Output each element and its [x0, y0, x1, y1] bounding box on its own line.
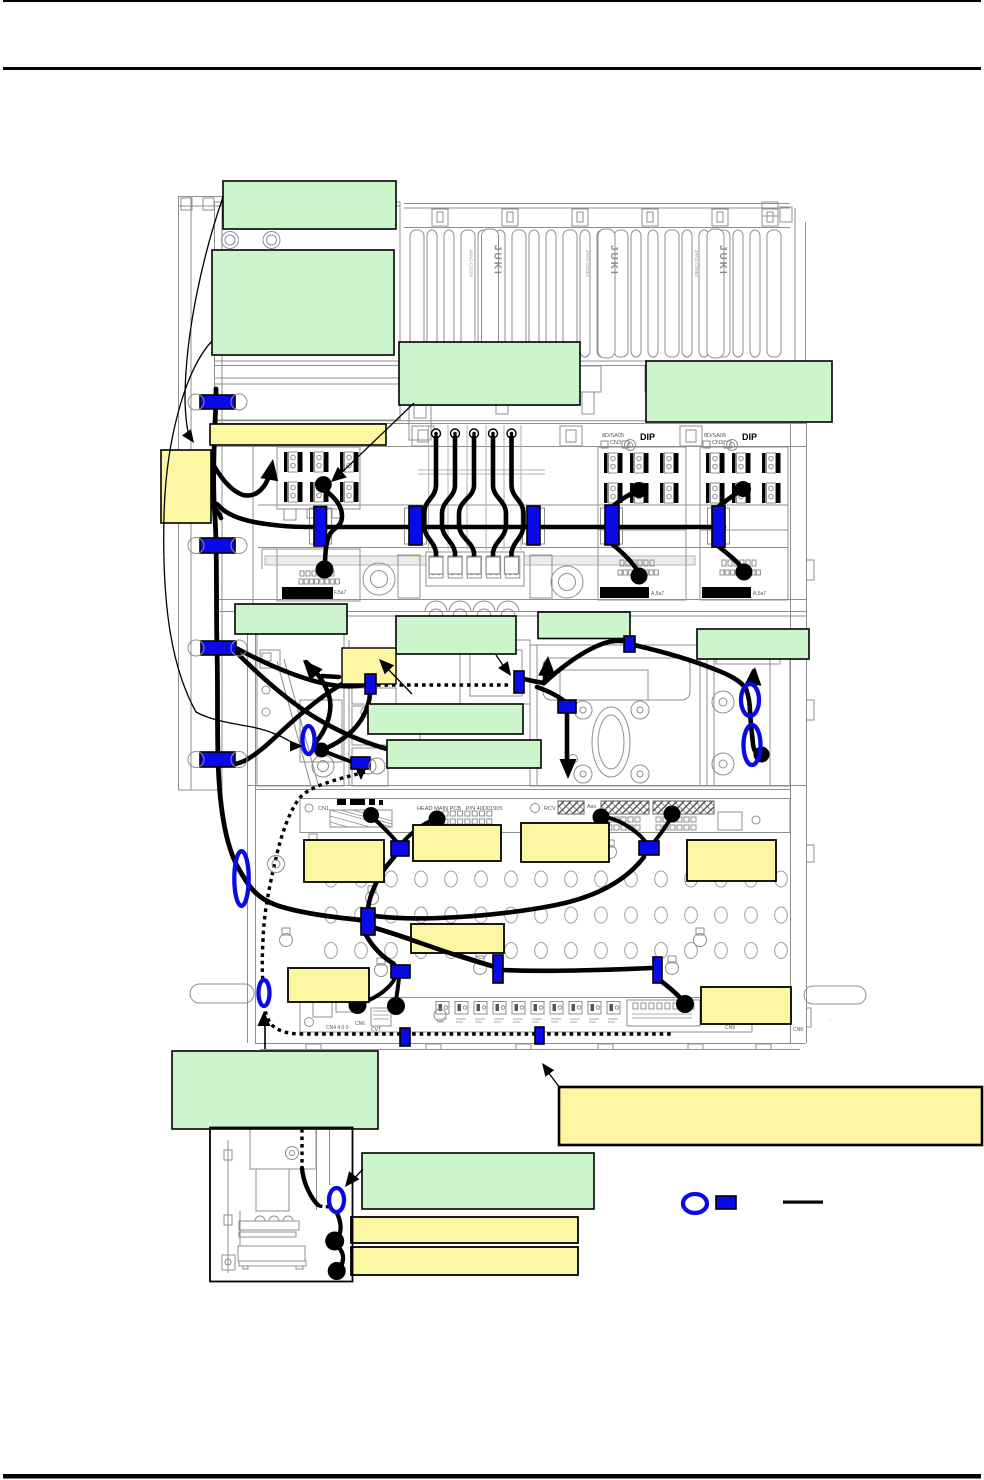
- wire dotted-unit-horiz: [319, 1206, 330, 1207]
- wire dotted-D2: [262, 772, 365, 982]
- wire z-cable-2: [442, 437, 455, 566]
- node z-cable-bottom-connectors: [429, 557, 443, 574]
- wire T3 G3-to-C1 diagonal: [336, 403, 414, 478]
- node loop-blue E2: [303, 726, 315, 754]
- wire dotted-unit: [300, 1129, 303, 1168]
- wire T2 from G2: [164, 341, 296, 745]
- node connector-blue B23: [716, 1196, 736, 1209]
- svg-text:CN1: CN1: [318, 806, 329, 812]
- node callout-green G2: [212, 250, 394, 355]
- node connector-blue B5: [314, 507, 327, 547]
- svg-text:CVT: CVT: [371, 1027, 381, 1033]
- wire top rule 2: [3, 67, 981, 70]
- wire W15 hub-to-B14: [368, 850, 399, 908]
- node callout-green G9: [368, 704, 523, 734]
- svg-text:8D/SA05: 8D/SA05: [602, 433, 624, 439]
- node connector-blue B19: [653, 957, 662, 983]
- wire bottom rule: [3, 1474, 981, 1479]
- svg-text:Ass: Ass: [587, 804, 596, 810]
- node callout-yellow Y6: [521, 823, 609, 862]
- node arrowheads: [182, 429, 761, 1187]
- node callout-yellow Y9: [288, 968, 369, 1002]
- svg-text:CN9: CN9: [725, 1025, 735, 1031]
- node connector-blue B17: [391, 965, 410, 978]
- wire T7 Y11-annot: [545, 1068, 560, 1088]
- node loop-blue E6: [329, 1188, 344, 1212]
- node connector-blue B10: [365, 674, 376, 694]
- node deck3-center-module: [460, 640, 700, 786]
- wire W17 hub-to-B18-B19-C14: [375, 928, 494, 967]
- node callout-yellow Y2: [161, 450, 211, 523]
- node plate-pcb-bottom: [300, 998, 830, 1034]
- wire W16a B15-to-C10: [605, 817, 645, 841]
- node connector-blue B11: [514, 671, 524, 693]
- node plate-pcb-top: [300, 799, 790, 833]
- wire W18 hub-to-B17-circles: [366, 935, 394, 964]
- node pcb-right-B: [700, 432, 788, 600]
- node connector-blue B14: [391, 841, 409, 856]
- svg-text:CN3: CN3: [610, 440, 621, 446]
- wire W8 conn5-up-right: [718, 491, 740, 507]
- node callout-green G6: [396, 616, 516, 654]
- node callout-green G5: [235, 604, 347, 634]
- wire W5 wave circle-to-circle: [324, 489, 342, 566]
- node bottom-unit-gray: [222, 1128, 330, 1273]
- wire W19 B11-branches: [524, 679, 544, 683]
- node connector-blue B3: [201, 641, 236, 655]
- wire W21 circle-to-B20: [326, 752, 352, 762]
- wire W10 conn3-to-yellow-conn: [236, 648, 364, 686]
- node loop-blue E4: [741, 684, 759, 716]
- node connector-blue B12: [558, 700, 576, 713]
- node callout-green G1: [223, 181, 396, 229]
- node cable-junction-circles: [314, 476, 770, 1280]
- node callout-yellow Y7: [687, 840, 776, 881]
- wire z-cable-1: [424, 437, 436, 566]
- node plate-bottom-edge: [255, 1044, 806, 1050]
- wire W11 conn3-to-greenbox: [236, 652, 398, 752]
- node handle-left: [190, 984, 254, 1003]
- node pcb-left-upper: [277, 447, 360, 520]
- node loop-blue E5: [744, 725, 761, 765]
- wire W16 hub-to-B15: [375, 857, 644, 918]
- node connector-blue B13: [624, 636, 635, 652]
- svg-text:RCV: RCV: [544, 806, 556, 812]
- svg-text:F,5a7: F,5a7: [334, 590, 346, 596]
- node loop-blue E3: [259, 980, 270, 1006]
- node callout-green G7: [538, 612, 630, 639]
- node callout-yellow Y11: [559, 1087, 982, 1145]
- node left-conn-ears: [188, 394, 385, 873]
- wire dotted-D1: [377, 683, 512, 686]
- node callout-green G8: [697, 629, 809, 659]
- node connector-blue B21: [400, 1028, 410, 1046]
- wire W16b B15-to-C11: [655, 818, 671, 841]
- node connector-blue B2: [200, 538, 235, 553]
- node feeder-slots: [410, 230, 781, 357]
- wire T9 G11-annot-vertical: [264, 1024, 266, 1049]
- svg-text:A,5a7: A,5a7: [753, 591, 766, 597]
- node connector-blue B9: [712, 506, 725, 547]
- wire W24 bottom-unit-cable: [302, 1168, 318, 1205]
- node connector-blue B4: [200, 752, 235, 767]
- node band1-right-rail: [762, 202, 806, 420]
- svg-text:CN8: CN8: [793, 1027, 803, 1033]
- wire W17-over-Y8: [375, 928, 494, 967]
- node deck3-right-module: [700, 640, 790, 786]
- node terminal-strip: [363, 552, 583, 598]
- node cable-tray: [258, 504, 788, 506]
- node connector-blue B6: [409, 506, 422, 545]
- node deck2-frame: [215, 420, 814, 1043]
- wire W2 yellow-stub: [209, 505, 221, 518]
- node deck3-frame: [248, 612, 808, 1043]
- node handle-right: [804, 986, 866, 1004]
- wire W15b B14-to-C9: [404, 820, 433, 841]
- wire T1 from G1: [185, 197, 223, 436]
- node callout-green G3: [399, 342, 580, 405]
- node feeder-bottom-rail: [215, 361, 790, 440]
- node connector-blue B20: [351, 757, 370, 769]
- wire W15a B14-to-C8: [373, 818, 396, 841]
- node callout-green G12: [362, 1153, 594, 1209]
- svg-text:CN6: CN6: [355, 1021, 365, 1027]
- node callout-yellow Y8: [411, 924, 504, 953]
- svg-text:4PAG-CE554: 4PAG-CE554: [469, 250, 474, 277]
- svg-text:JUKI: JUKI: [492, 245, 503, 276]
- node callout-yellow Y13: [351, 1247, 578, 1275]
- wire z-cable-4: [493, 437, 506, 566]
- wire bus main horizontal: [315, 525, 724, 530]
- node loop-blue E1: [234, 851, 248, 906]
- svg-text:JUKI: JUKI: [717, 245, 728, 276]
- node callout-green G4: [646, 361, 832, 422]
- svg-text:CN4 4 0 0: CN4 4 0 0: [326, 1025, 349, 1031]
- svg-text:JUKI: JUKI: [608, 245, 619, 276]
- node connector-blue B7: [527, 506, 540, 545]
- node feeder-juki 612: [585, 229, 619, 358]
- wire W14 yellow-to-conn4: [208, 683, 344, 765]
- svg-text:DIP: DIP: [640, 432, 655, 442]
- node callout-yellow Y1: [210, 424, 386, 445]
- node bus-conn-seats: [310, 508, 332, 544]
- svg-text:4PAG-CE554: 4PAG-CE554: [585, 250, 590, 277]
- node callout-yellow Y5: [413, 825, 501, 861]
- node connector-blue B16: [361, 908, 375, 935]
- node hatch-connectors: [558, 801, 714, 814]
- node plate-ears: [280, 834, 707, 997]
- node callout-green G11: [172, 1051, 378, 1129]
- node connector-blue B8: [605, 505, 619, 545]
- wire T8 G12-annot: [351, 1169, 363, 1182]
- wire W1 left vertical cable: [214, 389, 361, 920]
- node z-cable-tops: [432, 429, 441, 438]
- wire T6 arrow-into-B11: [496, 655, 507, 671]
- node plate-oval-grid: [325, 871, 788, 959]
- node bottom-unit-frame: [210, 1128, 353, 1282]
- node connector-blue B15: [639, 841, 659, 855]
- wire W3 arrow-cable-up: [207, 452, 270, 495]
- node pcb-left-lower: [262, 549, 695, 601]
- wire T5 arrow-into-Y3: [385, 666, 412, 694]
- node spring-bumps: [425, 601, 519, 623]
- svg-text:DIP: DIP: [742, 432, 757, 442]
- node deck3-left-bracket: [257, 628, 420, 786]
- wire W13 yellowconn-to-circle: [324, 694, 370, 749]
- node connector-blue B1: [200, 395, 235, 409]
- wire z-cable-3: [459, 437, 474, 566]
- node callout-yellow Y4: [304, 840, 384, 882]
- svg-text:CN3: CN3: [712, 440, 723, 446]
- wire top rule 1: [3, 0, 981, 2]
- wire z-cable-5: [512, 437, 524, 566]
- svg-text:8D/SA05: 8D/SA05: [704, 433, 726, 439]
- svg-text:4PAG-CE554: 4PAG-CE554: [694, 250, 699, 277]
- node feeder-juki 495.5: [469, 229, 503, 358]
- node callout-yellow Y10: [701, 987, 791, 1024]
- node loop-blue E7: [683, 1194, 707, 1213]
- wire W4 arc-to-bus: [217, 504, 320, 527]
- node legend-cable-sample: [783, 1201, 823, 1204]
- node connector-blue B18: [493, 955, 503, 983]
- node machine-left-frame: [179, 197, 401, 791]
- wire W12 arrow-cable-upleft: [306, 662, 330, 742]
- node pcb-right-A: [598, 432, 686, 600]
- node connector-blue B22: [535, 1027, 544, 1044]
- node z-guides: [418, 425, 545, 550]
- node feeder-bank: [404, 204, 790, 228]
- wire W9 conn5-down-right: [718, 546, 742, 568]
- node callout-yellow Y3: [342, 648, 396, 684]
- wire W6 conn4-up-right: [612, 492, 635, 507]
- wire W7 conn4-down-right: [612, 544, 637, 570]
- node callout-yellow Y12: [351, 1217, 578, 1243]
- node callout-green G10: [387, 740, 541, 768]
- node feeder-juki 721: [694, 229, 728, 358]
- wire cable-stub-under-Y3: [322, 676, 339, 677]
- svg-text:A,5a7: A,5a7: [651, 591, 664, 597]
